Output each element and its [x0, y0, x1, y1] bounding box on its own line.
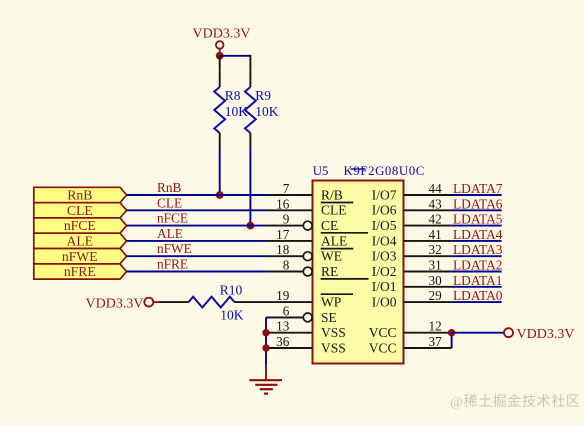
pin name overbar	[321, 232, 368, 234]
net label LDATA3	[453, 242, 503, 257]
pin name I/O5	[372, 218, 397, 233]
net label nFCE	[157, 211, 188, 226]
watermark	[450, 394, 580, 410]
svg-text:WP: WP	[321, 295, 341, 310]
svg-text:19: 19	[276, 288, 290, 303]
pin name SE	[321, 310, 337, 325]
wire LDATA7	[452, 194, 502, 196]
pin 30	[404, 273, 452, 288]
pin name R/B	[321, 187, 343, 202]
svg-text:R/B: R/B	[321, 187, 343, 202]
wire LDATA5	[452, 225, 502, 227]
svg-text:R10: R10	[220, 283, 243, 298]
svg-text:SE: SE	[321, 310, 337, 325]
svg-text:VCC: VCC	[369, 340, 397, 355]
svg-text:VDD3.3V: VDD3.3V	[86, 296, 144, 311]
svg-text:LDATA6: LDATA6	[453, 196, 503, 211]
svg-text:8: 8	[283, 258, 290, 273]
pin name CLE	[321, 203, 347, 218]
svg-text:RnB: RnB	[67, 188, 92, 203]
svg-text:nFCE: nFCE	[157, 211, 188, 226]
pin name I/O4	[372, 233, 397, 248]
junction (R9 on nFCE wire)	[247, 222, 255, 230]
svg-text:U5: U5	[313, 164, 329, 178]
net label LDATA6	[453, 196, 503, 211]
svg-text:ALE: ALE	[321, 233, 347, 248]
svg-text:29: 29	[429, 288, 443, 303]
svg-text:I/O0: I/O0	[372, 295, 397, 310]
wire ground rail	[265, 317, 267, 364]
wire LDATA3	[452, 255, 502, 257]
pin name overbar	[321, 248, 354, 250]
ground	[249, 365, 282, 394]
pin 41	[404, 227, 452, 242]
pin 6	[266, 303, 312, 321]
pin 12	[404, 319, 452, 334]
pin 7	[266, 181, 313, 196]
pin name overbar	[321, 278, 369, 280]
svg-text:13: 13	[276, 319, 290, 334]
wire ALE	[127, 240, 266, 242]
pin 31	[404, 258, 452, 273]
net label LDATA4	[453, 227, 503, 242]
svg-text:nFRE: nFRE	[157, 257, 188, 272]
pin name I/O7	[372, 187, 397, 202]
pin 17	[266, 227, 313, 242]
pin 16	[266, 196, 313, 211]
pin 36	[266, 334, 313, 349]
resistor R10	[189, 283, 244, 323]
svg-text:44: 44	[429, 181, 443, 196]
pin name I/O0	[372, 295, 397, 310]
resistor R8	[214, 72, 248, 148]
svg-text:LDATA0: LDATA0	[453, 288, 503, 303]
pin name ALE	[321, 233, 347, 248]
pin name overbar	[321, 293, 353, 295]
net label RnB	[157, 180, 182, 195]
svg-text:@稀土掘金技术社区: @稀土掘金技术社区	[450, 394, 580, 410]
pin 9	[266, 212, 312, 230]
svg-text:CLE: CLE	[321, 203, 347, 218]
pin 13	[266, 319, 313, 334]
net label LDATA2	[453, 258, 503, 273]
svg-text:30: 30	[429, 273, 443, 288]
wire R9 to nFCE net	[249, 148, 251, 226]
pin name overbar	[321, 202, 354, 204]
svg-text:18: 18	[276, 242, 290, 257]
svg-text:LDATA2: LDATA2	[453, 258, 503, 273]
svg-text:I/O6: I/O6	[372, 203, 397, 218]
svg-text:VCC: VCC	[369, 325, 397, 340]
port ALE	[34, 233, 127, 248]
svg-text:LDATA4: LDATA4	[453, 227, 503, 242]
svg-text:16: 16	[276, 196, 290, 211]
net label nFWE	[157, 241, 192, 256]
svg-text:nFCE: nFCE	[64, 218, 96, 233]
pin name I/O2	[372, 264, 397, 279]
junction (R8 on RnB wire)	[216, 191, 224, 199]
pin 18	[266, 242, 312, 260]
designator U5	[313, 164, 329, 178]
pin name I/O6	[372, 203, 397, 218]
svg-text:LDATA7: LDATA7	[453, 181, 503, 196]
svg-text:VDD3.3V: VDD3.3V	[193, 26, 251, 41]
svg-text:I/O4: I/O4	[372, 233, 397, 248]
wire nFCE	[127, 225, 266, 227]
pin name VCC	[369, 325, 397, 340]
net label nFRE	[157, 257, 188, 272]
net label LDATA0	[453, 288, 503, 303]
port nFCE	[34, 218, 127, 233]
svg-text:10K: 10K	[255, 104, 278, 119]
power VDD3.3V (left)	[86, 296, 160, 311]
IC U5 K9F2G08U0C body	[313, 181, 404, 364]
svg-text:43: 43	[429, 196, 443, 211]
wire LDATA1	[452, 286, 502, 288]
svg-text:17: 17	[276, 227, 290, 242]
wire nFWE	[127, 255, 266, 257]
svg-text:ALE: ALE	[157, 226, 183, 241]
port CLE	[34, 203, 127, 218]
junction (VDD to R8/R9)	[216, 52, 224, 60]
junction (pin13 on rail)	[262, 329, 269, 336]
svg-text:10K: 10K	[220, 308, 244, 323]
pin name I/O1	[372, 279, 397, 294]
junction (VCC node)	[448, 329, 455, 336]
svg-text:32: 32	[429, 242, 442, 257]
svg-text:31: 31	[429, 258, 442, 273]
net label CLE	[157, 195, 182, 210]
svg-text:10K: 10K	[225, 104, 249, 119]
svg-text:VDD3.3V: VDD3.3V	[517, 327, 575, 342]
wire LDATA0	[452, 301, 502, 303]
svg-text:6: 6	[283, 303, 290, 318]
pin name I/O3	[372, 249, 397, 264]
svg-text:LDATA3: LDATA3	[453, 242, 503, 257]
pin 8	[266, 258, 312, 276]
pin name CE	[321, 218, 338, 233]
pin 42	[404, 212, 452, 227]
svg-text:CLE: CLE	[157, 195, 182, 210]
wire VCC node to VDD3.3V	[452, 332, 504, 334]
wire pin37 up to VCC node	[451, 333, 453, 348]
svg-text:LDATA1: LDATA1	[453, 273, 503, 288]
svg-text:nFWE: nFWE	[157, 241, 192, 256]
net label LDATA5	[453, 212, 503, 227]
svg-text:nFRE: nFRE	[64, 264, 96, 279]
pin name WP	[321, 295, 341, 310]
pin name VSS	[321, 325, 346, 340]
port RnB	[34, 187, 127, 202]
wire RnB	[127, 194, 266, 196]
junction (pin36 on rail)	[262, 344, 269, 351]
wire nFRE	[127, 271, 266, 273]
pin 19	[235, 288, 313, 303]
port nFRE	[34, 264, 127, 279]
pin 43	[404, 196, 452, 211]
svg-text:VSS: VSS	[321, 340, 346, 355]
net label LDATA1	[453, 273, 503, 288]
svg-text:LDATA5: LDATA5	[453, 212, 503, 227]
svg-text:nFWE: nFWE	[62, 249, 98, 264]
wire LDATA6	[452, 209, 502, 211]
pin name VCC	[369, 340, 397, 355]
svg-text:7: 7	[283, 181, 290, 196]
wire VDD to R10	[160, 301, 189, 303]
wire VDD node down to R8	[219, 56, 221, 72]
svg-text:36: 36	[276, 334, 290, 349]
svg-text:VSS: VSS	[321, 325, 346, 340]
svg-text:R9: R9	[255, 88, 271, 103]
svg-text:41: 41	[429, 227, 442, 242]
wire LDATA2	[452, 271, 502, 273]
pin 32	[404, 242, 452, 257]
pin name WE	[321, 249, 342, 264]
wire CLE	[127, 209, 266, 211]
svg-text:9: 9	[283, 212, 290, 227]
svg-text:CLE: CLE	[67, 203, 93, 218]
wire LDATA4	[452, 240, 502, 242]
net label LDATA7	[453, 181, 503, 196]
svg-text:WE: WE	[321, 249, 342, 264]
resistor R9	[245, 72, 279, 148]
svg-text:42: 42	[429, 212, 442, 227]
svg-text:RnB: RnB	[157, 180, 182, 195]
svg-text:I/O7: I/O7	[372, 187, 397, 202]
svg-text:CE: CE	[321, 218, 338, 233]
svg-text:I/O5: I/O5	[372, 218, 397, 233]
svg-text:37: 37	[429, 334, 443, 349]
port nFWE	[34, 249, 127, 264]
pin 37	[404, 334, 452, 349]
pin 29	[404, 288, 452, 303]
svg-text:K9F2G08U0C: K9F2G08U0C	[344, 164, 425, 178]
svg-text:I/O3: I/O3	[372, 249, 397, 264]
wire VDD node to R9 branch	[220, 55, 251, 57]
wire R8 to RnB net	[219, 148, 221, 195]
svg-text:I/O2: I/O2	[372, 264, 397, 279]
power VDD3.3V (right)	[504, 327, 574, 342]
pin name VSS	[321, 340, 346, 355]
svg-text:I/O1: I/O1	[372, 279, 397, 294]
svg-text:ALE: ALE	[66, 234, 93, 249]
power VDD3.3V (top)	[193, 26, 251, 52]
svg-text:R8: R8	[225, 88, 241, 103]
svg-text:12: 12	[429, 319, 442, 334]
pin 44	[404, 181, 452, 196]
part value K9F2G08U0C	[344, 164, 425, 178]
pin name RE	[321, 264, 338, 279]
svg-text:RE: RE	[321, 264, 338, 279]
net label ALE	[157, 226, 183, 241]
wire VDD node down to R9 top	[249, 55, 251, 72]
pin 6 wire to ground rail	[266, 316, 303, 318]
